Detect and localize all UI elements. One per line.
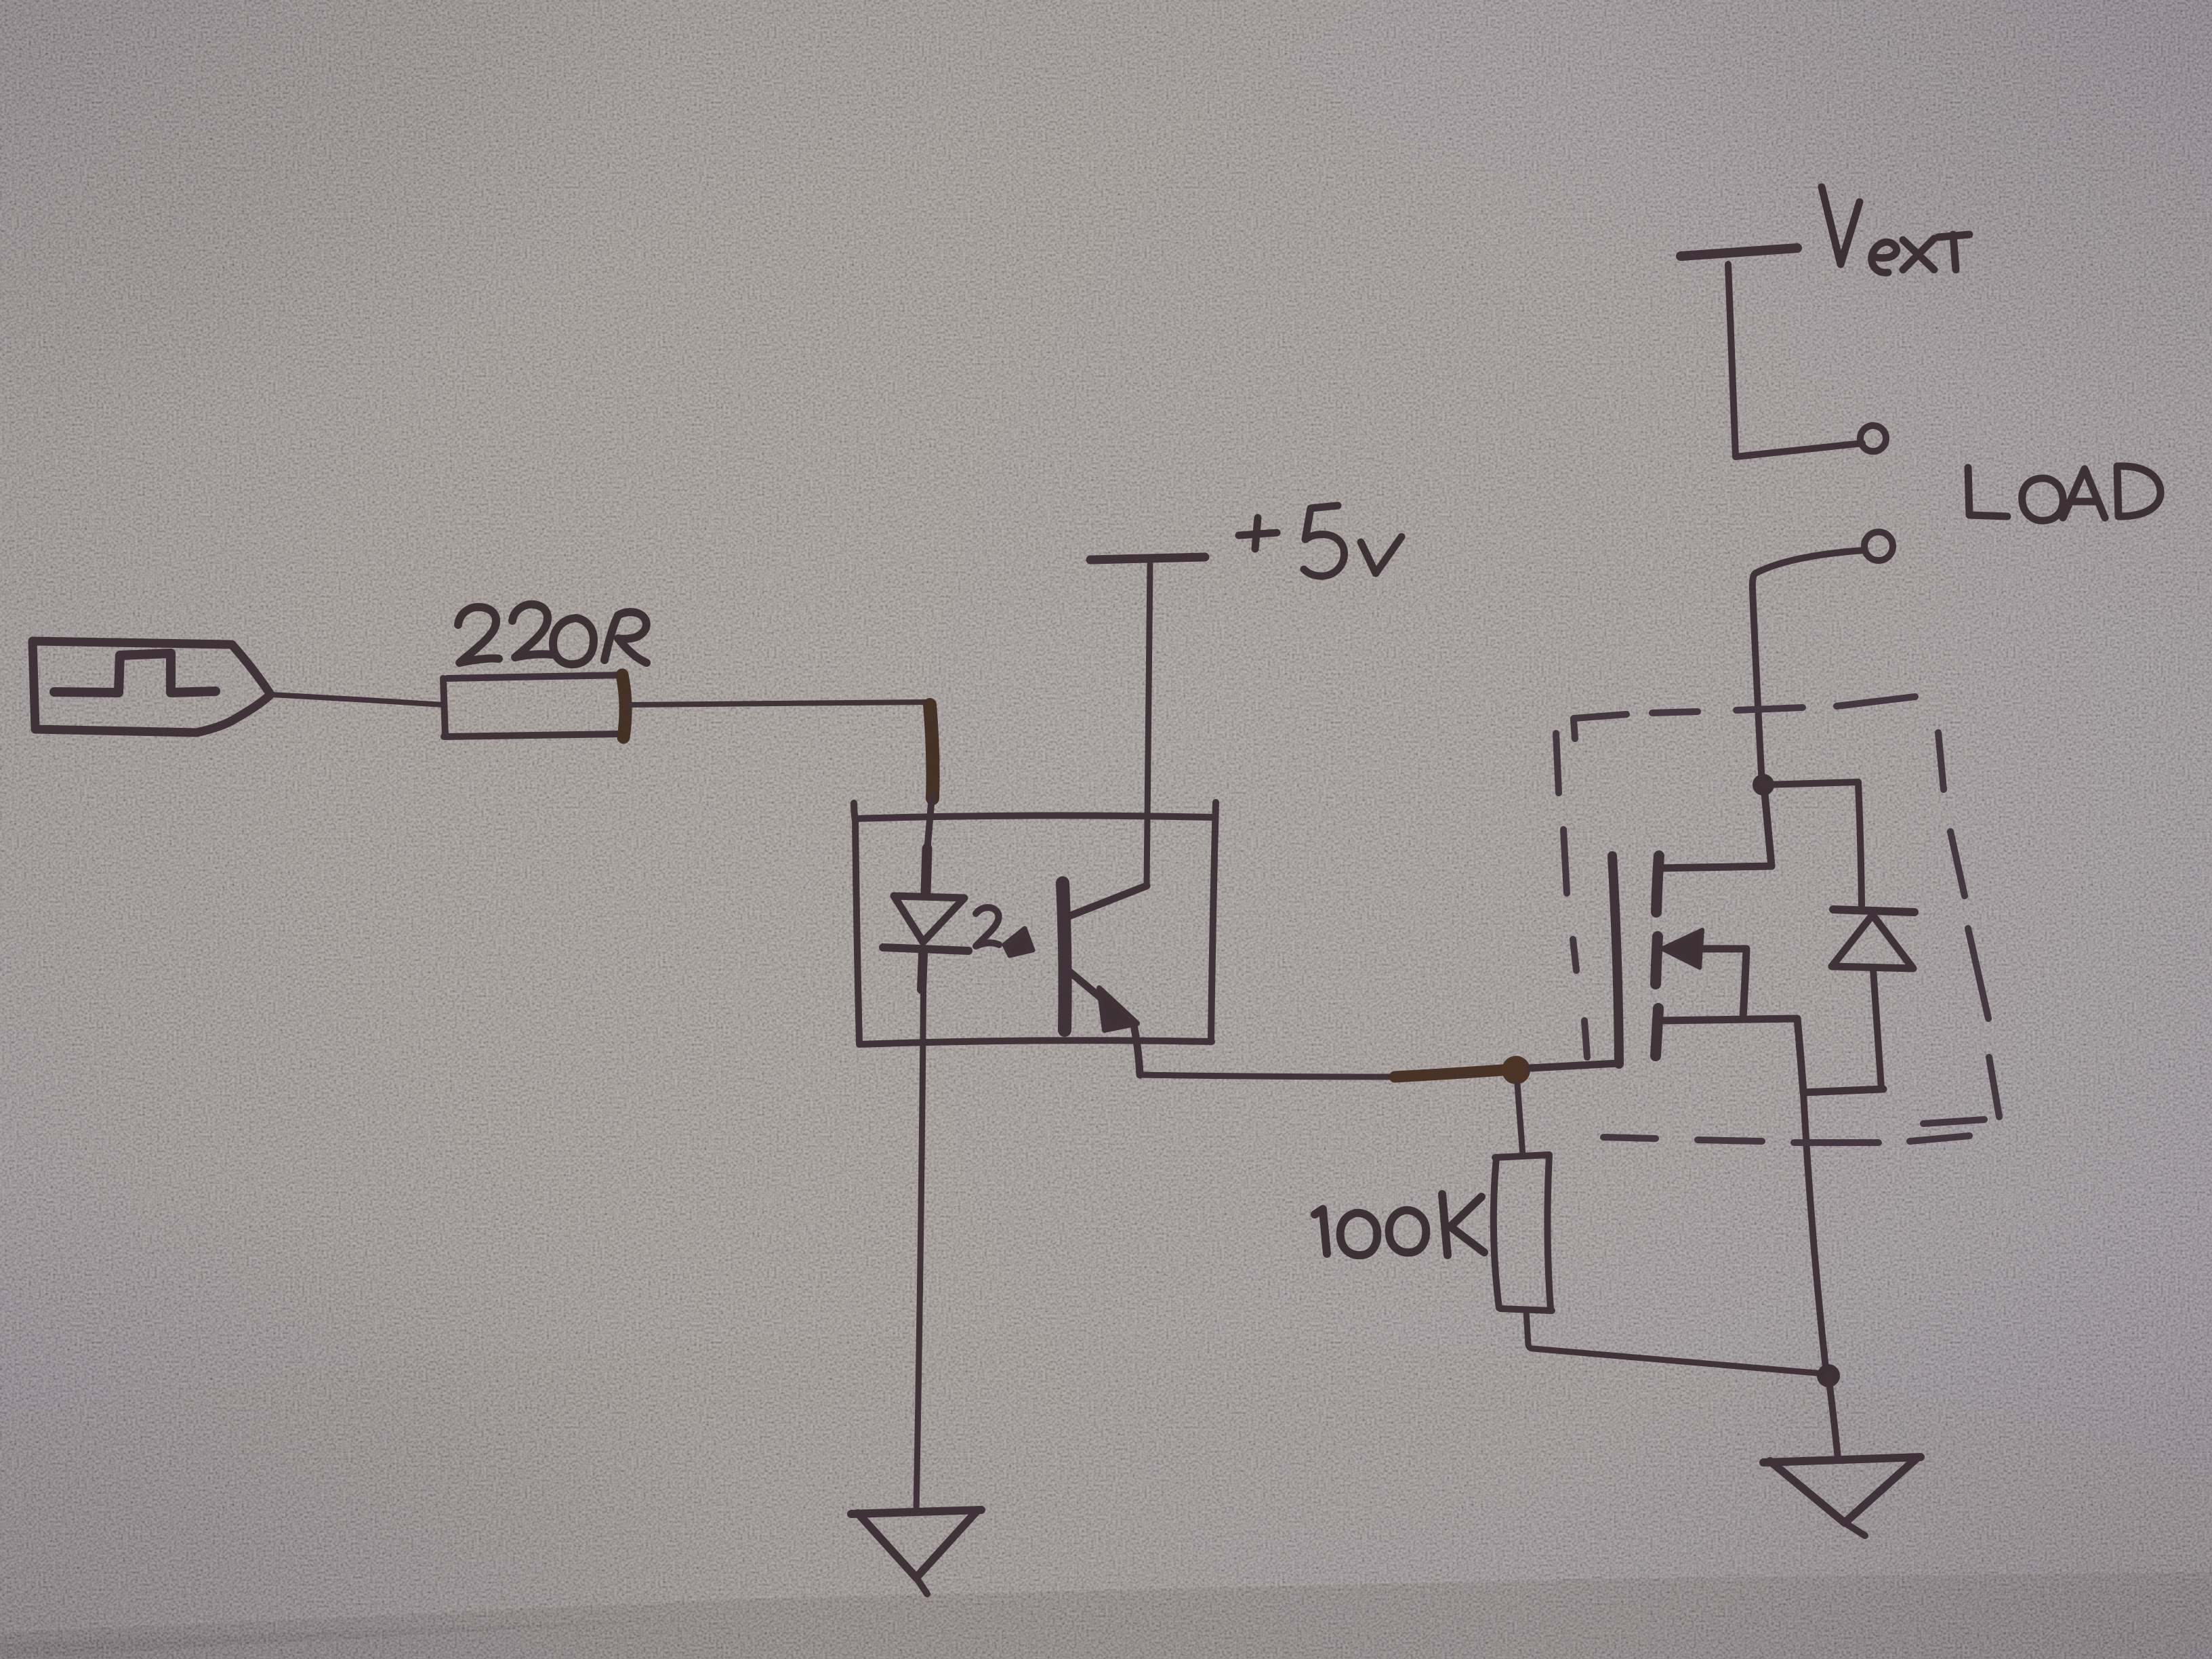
VEXT terminal circle: [1860, 426, 1886, 451]
resistor 100K: [1494, 1155, 1552, 1311]
LOAD terminal circle: [1864, 532, 1893, 560]
warm tint upper band: [0, 0, 2212, 610]
LED cathode overdraw: [922, 954, 923, 989]
gate wire emitter->junction: [1140, 1075, 1395, 1077]
paper bottom edge shadow band: [0, 1572, 2212, 1659]
emitter diagonal + arrowhead: [1068, 970, 1113, 1008]
VEXT bar: [1681, 248, 1797, 256]
cool tint right side: [915, 0, 2212, 1659]
LED anode overdraw: [926, 848, 927, 893]
phototransistor base bar: [1063, 883, 1065, 1030]
node stroke down (retraced): [930, 705, 933, 798]
collector diagonal: [1065, 886, 1147, 918]
junction blob: [1502, 1056, 1530, 1084]
wire junction->100K: [1517, 1084, 1523, 1155]
body arrow (points left into channel): [1701, 945, 1746, 953]
emitter lead out of box: [1133, 1022, 1140, 1075]
light arrows (squiggle): [976, 907, 999, 946]
VEXT wire down and right to terminal: [1728, 264, 1862, 457]
label +5v: [1239, 506, 1401, 576]
body diode D1: [1833, 909, 1914, 912]
source lead: [1659, 1019, 1883, 1092]
channel contact: drain: [1656, 856, 1659, 912]
warm tint left-center: [0, 0, 1626, 1423]
label 100K: [1315, 1194, 1484, 1255]
LOAD drop wire: [1753, 550, 1864, 785]
+5v vertical wire: [1147, 565, 1150, 886]
LED inside opto: [926, 844, 928, 895]
drain lead: [1659, 786, 1771, 868]
LED cathode wire down to ground: [916, 951, 924, 1513]
junction dot drain/LOAD: [1753, 774, 1774, 796]
channel contact: source: [1656, 1008, 1658, 1056]
source wire down: [1803, 1092, 1826, 1374]
ground left: [851, 1510, 981, 1514]
wire 100K bottom -> source node: [1526, 1311, 1828, 1376]
optocoupler box U1: [854, 802, 1216, 1044]
resistor 220R: [443, 675, 625, 737]
MOSFET dashed package box: [1556, 697, 1999, 1143]
pulse source box: [33, 641, 270, 733]
channel contact: body: [1656, 937, 1658, 984]
dot -> body diode top: [1763, 782, 1862, 905]
corner vignettes: [0, 1166, 786, 1659]
MOSFET gate bar: [1612, 856, 1619, 1064]
pulse waveform: [54, 653, 216, 693]
+5v bar: [1090, 557, 1205, 560]
label 220R: [458, 605, 647, 664]
ground right: [1763, 1457, 1921, 1462]
wire 220R->node: [629, 702, 928, 705]
junction dot source/100K: [1817, 1364, 1840, 1387]
wire pulse->220R: [271, 695, 443, 705]
label VEXT: [1822, 187, 1969, 272]
warm tint bottom: [0, 1335, 2212, 1659]
label LOAD: [1968, 466, 2160, 520]
